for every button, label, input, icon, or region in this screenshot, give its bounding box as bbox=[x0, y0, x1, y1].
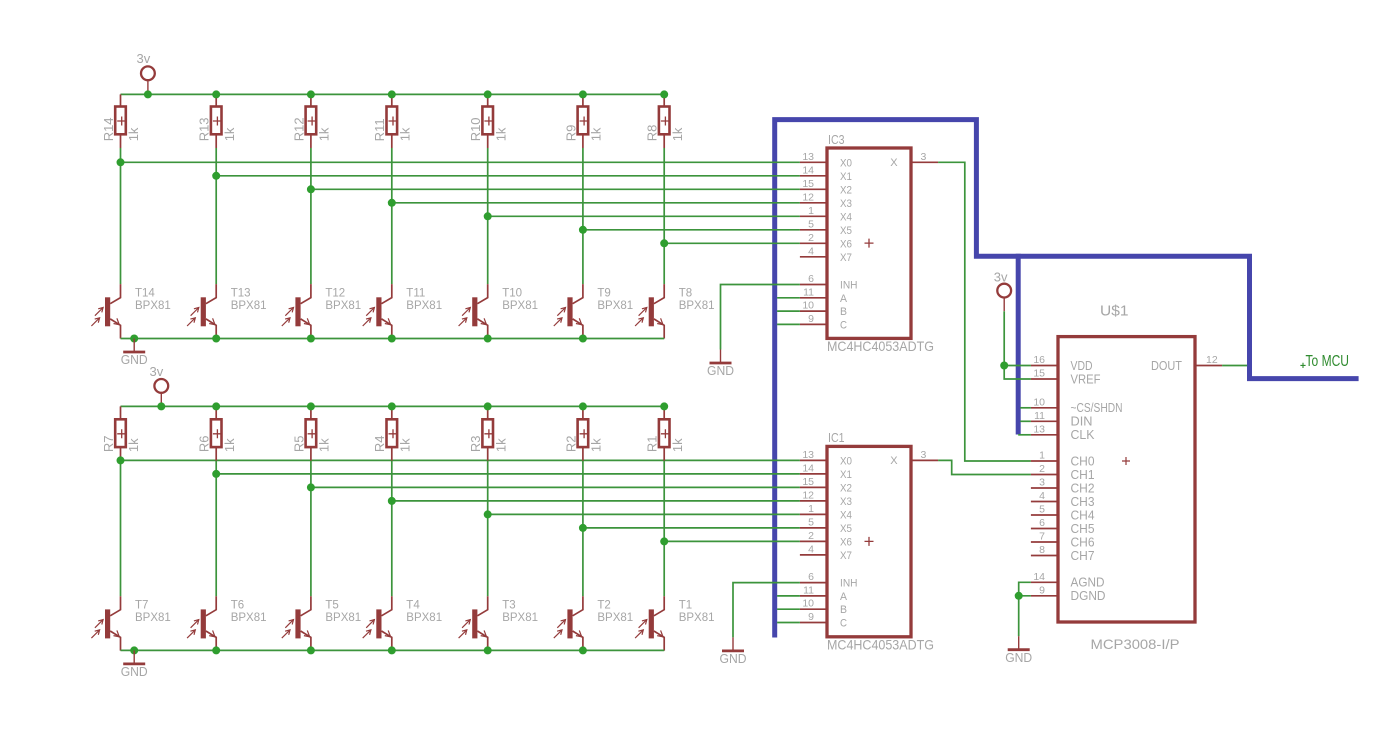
transistor T1 BPX81 bbox=[635, 596, 714, 650]
svg-text:IC1: IC1 bbox=[828, 430, 845, 445]
svg-text:11: 11 bbox=[803, 286, 814, 298]
svg-text:15: 15 bbox=[1033, 368, 1045, 380]
junction rail R1 bbox=[660, 402, 668, 410]
transistor T9 BPX81 bbox=[554, 284, 633, 338]
wire node to mux X5 bbox=[583, 527, 800, 529]
pin 3 X output of IC3 bbox=[911, 161, 938, 163]
pin 3 CH2 of U$1 bbox=[1031, 487, 1058, 489]
wire CLK to bus bbox=[1018, 434, 1031, 436]
wire node to mux X1 bbox=[216, 473, 800, 475]
svg-text:INH: INH bbox=[840, 280, 858, 292]
svg-text:R11: R11 bbox=[372, 118, 387, 141]
junction emitter rail bbox=[212, 646, 220, 654]
svg-text:T4: T4 bbox=[406, 600, 420, 612]
svg-text:1k: 1k bbox=[493, 438, 508, 452]
ground GND (emitter rail) bbox=[121, 339, 148, 368]
junction rail R6 bbox=[212, 402, 220, 410]
junction node X1 bbox=[212, 172, 220, 180]
svg-text:DOUT: DOUT bbox=[1151, 359, 1182, 373]
3v supply symbol (rail y=406.4) bbox=[150, 364, 169, 406]
svg-text:6: 6 bbox=[808, 571, 814, 583]
svg-text:DGND: DGND bbox=[1071, 589, 1106, 603]
resistor R12 1k bbox=[310, 94, 312, 106]
svg-text:3: 3 bbox=[1039, 477, 1045, 489]
wire node to mux X5 bbox=[583, 229, 800, 231]
wire R8 node vertical bbox=[663, 148, 665, 284]
resistor R8 1k bbox=[663, 94, 665, 106]
wire R3 node vertical bbox=[487, 461, 489, 597]
svg-text:C: C bbox=[840, 319, 847, 331]
junction emitter rail bbox=[484, 646, 492, 654]
svg-text:X4: X4 bbox=[840, 509, 852, 521]
pin 10 B of IC1 bbox=[800, 608, 827, 610]
wire node to mux X0 bbox=[121, 459, 800, 461]
svg-text:4: 4 bbox=[1039, 490, 1045, 502]
pin 5 X5 of IC3 bbox=[800, 229, 827, 231]
pin 15 X2 of IC1 bbox=[800, 486, 827, 488]
svg-text:3v: 3v bbox=[994, 270, 1008, 285]
svg-text:X1: X1 bbox=[840, 469, 852, 481]
svg-text:X6: X6 bbox=[840, 238, 852, 250]
junction rail R8 bbox=[660, 90, 668, 98]
svg-text:DIN: DIN bbox=[1071, 415, 1093, 429]
wire DIN to bus bbox=[1020, 420, 1031, 422]
ground GND (IC1 INH) bbox=[720, 637, 747, 666]
svg-text:R10: R10 bbox=[468, 117, 483, 141]
pin 15 X2 of IC3 bbox=[800, 188, 827, 190]
junction emitter rail bbox=[388, 646, 396, 654]
resistor R3 1k bbox=[487, 406, 489, 419]
wire DOUT to bus bbox=[1222, 365, 1247, 367]
IC IC1 MC4HC4053ADTG analog mux box bbox=[827, 446, 911, 636]
wire R2 node vertical bbox=[582, 461, 584, 597]
pin 13 X0 of IC3 bbox=[800, 161, 827, 163]
ground GND (IC3 INH) bbox=[707, 350, 734, 379]
junction emitter rail bbox=[307, 646, 315, 654]
svg-text:BPX81: BPX81 bbox=[325, 300, 361, 312]
ground GND (U$1) bbox=[1005, 636, 1032, 665]
junction emitter rail bbox=[307, 335, 315, 343]
svg-text:T8: T8 bbox=[679, 287, 692, 299]
pin 2 X6 of IC3 bbox=[800, 242, 827, 244]
svg-text:10: 10 bbox=[1033, 396, 1045, 408]
transistor T2 BPX81 bbox=[554, 596, 633, 650]
svg-text:R8: R8 bbox=[645, 125, 660, 142]
pin 4 CH3 of U$1 bbox=[1031, 501, 1058, 503]
svg-text:3: 3 bbox=[921, 449, 927, 461]
wire node to mux X3 bbox=[392, 500, 800, 502]
svg-text:AGND: AGND bbox=[1071, 576, 1105, 590]
wire node to mux X2 bbox=[311, 486, 800, 488]
junction rail R11 bbox=[388, 90, 396, 98]
svg-text:1k: 1k bbox=[222, 127, 237, 141]
svg-text:X1: X1 bbox=[840, 171, 852, 183]
junction GND tap bbox=[130, 646, 138, 654]
svg-text:INH: INH bbox=[840, 578, 858, 590]
svg-text:BPX81: BPX81 bbox=[406, 300, 442, 312]
wire node to mux X1 bbox=[216, 175, 800, 177]
svg-text:R3: R3 bbox=[468, 435, 483, 452]
wire R11 node vertical bbox=[391, 148, 393, 284]
wire node to mux X0 bbox=[121, 161, 800, 163]
svg-text:GND: GND bbox=[121, 665, 148, 679]
svg-text:6: 6 bbox=[1039, 517, 1045, 529]
svg-text:GND: GND bbox=[1005, 651, 1032, 665]
junction emitter rail bbox=[388, 335, 396, 343]
svg-text:1k: 1k bbox=[126, 127, 141, 141]
svg-text:1: 1 bbox=[1039, 450, 1045, 462]
svg-text:6: 6 bbox=[808, 273, 814, 285]
bus branch to U$1 control pins bbox=[1016, 254, 1021, 435]
svg-text:B: B bbox=[840, 306, 847, 318]
svg-text:CH3: CH3 bbox=[1071, 495, 1095, 509]
svg-text:X5: X5 bbox=[840, 523, 852, 535]
svg-text:8: 8 bbox=[1039, 544, 1045, 556]
svg-text:1: 1 bbox=[808, 503, 814, 515]
junction node X5 bbox=[579, 524, 587, 532]
svg-text:1k: 1k bbox=[317, 438, 332, 452]
svg-text:CH4: CH4 bbox=[1071, 508, 1095, 522]
wire R13 node vertical bbox=[215, 148, 217, 284]
resistor R4 1k bbox=[391, 406, 393, 419]
wire R4 node vertical bbox=[391, 461, 393, 597]
pin 2 X6 of IC1 bbox=[800, 540, 827, 542]
svg-text:R5: R5 bbox=[291, 435, 306, 452]
pin 6 INH of IC1 bbox=[800, 582, 827, 584]
junction emitter rail bbox=[579, 646, 587, 654]
pin 15 VREF of U$1 bbox=[1031, 378, 1058, 380]
svg-text:MCP3008-I/P: MCP3008-I/P bbox=[1091, 636, 1180, 652]
svg-text:X0: X0 bbox=[840, 455, 852, 467]
pin 10 B of IC3 bbox=[800, 310, 827, 312]
svg-text:GND: GND bbox=[707, 364, 734, 378]
transistor T13 BPX81 bbox=[187, 284, 266, 338]
wire R7 node vertical bbox=[120, 461, 122, 597]
svg-text:16: 16 bbox=[1033, 354, 1045, 366]
transistor T4 BPX81 bbox=[363, 596, 442, 650]
svg-text:X4: X4 bbox=[840, 211, 852, 223]
junction emitter rail bbox=[484, 335, 492, 343]
svg-text:CH6: CH6 bbox=[1071, 535, 1095, 549]
svg-text:1k: 1k bbox=[397, 438, 412, 452]
wire X output of IC1 bbox=[938, 460, 1031, 474]
wire R6 node vertical bbox=[215, 461, 217, 597]
junction emitter rail bbox=[212, 335, 220, 343]
svg-text:13: 13 bbox=[802, 449, 814, 461]
svg-text:X3: X3 bbox=[840, 198, 852, 210]
pin 13 X0 of IC1 bbox=[800, 459, 827, 461]
junction rail R12 bbox=[307, 90, 315, 98]
svg-text:R13: R13 bbox=[197, 117, 212, 141]
svg-text:BPX81: BPX81 bbox=[325, 612, 361, 624]
junction node X4 bbox=[484, 212, 492, 220]
svg-text:BPX81: BPX81 bbox=[231, 612, 267, 624]
wire 3v to VDD/VREF bbox=[1004, 311, 1031, 379]
svg-text:T9: T9 bbox=[597, 287, 610, 299]
resistor R1 1k bbox=[663, 406, 665, 419]
svg-text:BPX81: BPX81 bbox=[502, 300, 538, 312]
svg-text:R9: R9 bbox=[563, 125, 578, 142]
junction rail R3 bbox=[484, 402, 492, 410]
svg-text:R12: R12 bbox=[291, 117, 306, 141]
wire node to mux X4 bbox=[488, 513, 800, 515]
svg-text:T11: T11 bbox=[406, 287, 425, 299]
wire R12 node vertical bbox=[310, 148, 312, 284]
pin 9 C of IC1 bbox=[800, 622, 827, 624]
pin 9 C of IC3 bbox=[800, 323, 827, 325]
svg-text:MC4HC4053ADTG: MC4HC4053ADTG bbox=[827, 338, 934, 354]
wire INH of IC3 to ground bbox=[721, 285, 800, 350]
pin 12 X3 of IC1 bbox=[800, 500, 827, 502]
transistor T8 BPX81 bbox=[635, 284, 714, 338]
junction 3v on rail bbox=[157, 402, 165, 410]
svg-text:A: A bbox=[840, 591, 848, 603]
svg-text:9: 9 bbox=[808, 313, 814, 325]
pin 14 AGND of U$1 bbox=[1031, 581, 1058, 583]
svg-text:14: 14 bbox=[802, 164, 814, 176]
svg-text:1: 1 bbox=[808, 205, 814, 217]
svg-text:BPX81: BPX81 bbox=[135, 612, 171, 624]
pin 1 X4 of IC3 bbox=[800, 215, 827, 217]
svg-text:1k: 1k bbox=[670, 127, 685, 141]
svg-text:R1: R1 bbox=[645, 435, 660, 452]
3v supply symbol (U$1) bbox=[994, 270, 1011, 312]
junction node X4 bbox=[484, 510, 492, 518]
svg-text:B: B bbox=[840, 604, 847, 616]
pin 12 X3 of IC3 bbox=[800, 202, 827, 204]
svg-text:T5: T5 bbox=[325, 600, 338, 612]
svg-text:X6: X6 bbox=[840, 536, 852, 548]
junction rail R4 bbox=[388, 402, 396, 410]
svg-text:R7: R7 bbox=[101, 435, 116, 452]
resistor R7 1k bbox=[120, 406, 122, 419]
pin 6 INH of IC3 bbox=[800, 284, 827, 286]
junction node X2 bbox=[307, 483, 315, 491]
resistor R14 1k bbox=[120, 94, 122, 106]
junction rail R9 bbox=[579, 90, 587, 98]
svg-text:T3: T3 bbox=[502, 600, 515, 612]
svg-text:15: 15 bbox=[802, 178, 814, 190]
svg-text:1k: 1k bbox=[589, 438, 604, 452]
junction 3v VDD node bbox=[1000, 362, 1008, 370]
wire node to mux X2 bbox=[311, 188, 800, 190]
svg-text:1k: 1k bbox=[397, 127, 412, 141]
wire B to bus bbox=[777, 310, 800, 312]
pin 3 X output of IC1 bbox=[911, 459, 938, 461]
svg-text:CLK: CLK bbox=[1071, 428, 1096, 442]
svg-text:3v: 3v bbox=[150, 364, 164, 379]
svg-text:BPX81: BPX81 bbox=[597, 612, 633, 624]
pin 1 X4 of IC1 bbox=[800, 513, 827, 515]
transistor T10 BPX81 bbox=[459, 284, 538, 338]
junction node X2 bbox=[307, 185, 315, 193]
svg-text:3v: 3v bbox=[137, 51, 151, 66]
junction node X5 bbox=[579, 226, 587, 234]
svg-text:1k: 1k bbox=[493, 127, 508, 141]
pin 11 DIN of U$1 bbox=[1031, 420, 1058, 422]
svg-text:CH0: CH0 bbox=[1071, 454, 1095, 468]
svg-text:BPX81: BPX81 bbox=[135, 300, 171, 312]
svg-text:1k: 1k bbox=[126, 438, 141, 452]
transistor T14 BPX81 bbox=[91, 284, 170, 338]
svg-text:3: 3 bbox=[921, 151, 927, 163]
svg-text:T7: T7 bbox=[135, 600, 148, 612]
svg-text:11: 11 bbox=[803, 584, 814, 596]
wire 3v rail bbox=[121, 405, 665, 407]
svg-text:R14: R14 bbox=[101, 117, 116, 141]
svg-text:T14: T14 bbox=[135, 287, 155, 299]
svg-text:GND: GND bbox=[121, 353, 148, 367]
svg-text:12: 12 bbox=[1206, 354, 1218, 366]
svg-text:VDD: VDD bbox=[1071, 359, 1093, 373]
svg-text:4: 4 bbox=[808, 543, 814, 555]
wire node to mux X4 bbox=[488, 215, 800, 217]
transistor T11 BPX81 bbox=[363, 284, 442, 338]
svg-text:13: 13 bbox=[802, 151, 814, 163]
svg-text:9: 9 bbox=[1039, 584, 1045, 596]
resistor R11 1k bbox=[391, 94, 393, 106]
pin 6 CH5 of U$1 bbox=[1031, 528, 1058, 530]
pin 5 CH4 of U$1 bbox=[1031, 514, 1058, 516]
wire AGND/DGND to ground bbox=[1019, 582, 1031, 636]
svg-text:5: 5 bbox=[808, 218, 814, 230]
svg-text:CH2: CH2 bbox=[1071, 481, 1095, 495]
junction 3v on rail bbox=[144, 90, 152, 98]
IC U$1 MCP3008-I/P ADC box bbox=[1058, 337, 1195, 622]
svg-text:7: 7 bbox=[1039, 531, 1045, 543]
resistor R13 1k bbox=[215, 94, 217, 106]
junction emitter rail bbox=[579, 335, 587, 343]
transistor T7 BPX81 bbox=[91, 596, 170, 650]
junction node X0 bbox=[117, 158, 125, 166]
pin 16 VDD of U$1 bbox=[1031, 365, 1058, 367]
junction node X6 bbox=[660, 537, 668, 545]
svg-text:12: 12 bbox=[802, 489, 814, 501]
pin 11 A of IC1 bbox=[800, 595, 827, 597]
resistor R5 1k bbox=[310, 406, 312, 419]
svg-text:2: 2 bbox=[1039, 463, 1045, 475]
pin 5 X5 of IC1 bbox=[800, 527, 827, 529]
svg-text:14: 14 bbox=[1033, 571, 1045, 583]
svg-text:R6: R6 bbox=[197, 435, 212, 452]
svg-text:To MCU: To MCU bbox=[1306, 353, 1350, 370]
transistor T6 BPX81 bbox=[187, 596, 266, 650]
svg-text:BPX81: BPX81 bbox=[406, 612, 442, 624]
svg-text:14: 14 bbox=[802, 462, 814, 474]
pin 12 DOUT of U$1 bbox=[1195, 365, 1222, 367]
wire R14 node vertical bbox=[120, 148, 122, 284]
junction node X3 bbox=[388, 497, 396, 505]
wire A to bus bbox=[777, 595, 800, 597]
svg-text:9: 9 bbox=[808, 611, 814, 623]
svg-text:5: 5 bbox=[808, 516, 814, 528]
svg-text:~CS/SHDN: ~CS/SHDN bbox=[1071, 401, 1123, 415]
junction node X3 bbox=[388, 199, 396, 207]
svg-text:11: 11 bbox=[1034, 410, 1045, 422]
wire ~CS/SHDN to bus bbox=[1020, 407, 1031, 409]
svg-text:X0: X0 bbox=[840, 157, 852, 169]
wire emitter ground rail bbox=[121, 649, 665, 651]
transistor T12 BPX81 bbox=[282, 284, 361, 338]
wire R9 node vertical bbox=[582, 148, 584, 284]
pin 1 CH0 of U$1 bbox=[1031, 460, 1058, 462]
svg-text:X7: X7 bbox=[840, 252, 852, 264]
svg-text:BPX81: BPX81 bbox=[502, 612, 538, 624]
transistor T3 BPX81 bbox=[459, 596, 538, 650]
wire R10 node vertical bbox=[487, 148, 489, 284]
svg-text:U$1: U$1 bbox=[1100, 304, 1129, 320]
wire C to bus bbox=[777, 622, 800, 624]
ground GND (emitter rail) bbox=[121, 650, 148, 679]
pin 14 X1 of IC3 bbox=[800, 175, 827, 177]
svg-text:CH7: CH7 bbox=[1071, 549, 1095, 563]
pin 13 CLK of U$1 bbox=[1031, 434, 1058, 436]
pin 4 X7 of IC3 bbox=[800, 256, 827, 258]
wire C to bus bbox=[777, 323, 800, 325]
resistor R2 1k bbox=[582, 406, 584, 419]
svg-text:X: X bbox=[890, 455, 898, 467]
svg-text:X2: X2 bbox=[840, 184, 852, 196]
pin 11 A of IC3 bbox=[800, 297, 827, 299]
svg-text:IC3: IC3 bbox=[828, 132, 845, 147]
svg-text:BPX81: BPX81 bbox=[679, 300, 715, 312]
resistor R10 1k bbox=[487, 94, 489, 106]
svg-text:T2: T2 bbox=[597, 600, 610, 612]
wire R1 node vertical bbox=[663, 461, 665, 597]
pin 8 CH7 of U$1 bbox=[1031, 555, 1058, 557]
wire INH of IC1 to ground bbox=[733, 583, 800, 638]
svg-text:4: 4 bbox=[808, 245, 814, 257]
wire R5 node vertical bbox=[310, 461, 312, 597]
svg-text:MC4HC4053ADTG: MC4HC4053ADTG bbox=[827, 636, 934, 652]
junction node X6 bbox=[660, 239, 668, 247]
wire node to mux X6 bbox=[664, 540, 800, 542]
svg-text:1k: 1k bbox=[222, 438, 237, 452]
3v supply symbol (rail y=94.4) bbox=[137, 51, 155, 95]
junction AGND/DGND bbox=[1015, 592, 1023, 600]
pin 4 X7 of IC1 bbox=[800, 554, 827, 556]
wire X output of IC3 bbox=[938, 162, 1031, 461]
svg-text:5: 5 bbox=[1039, 504, 1045, 516]
svg-text:CH5: CH5 bbox=[1071, 522, 1095, 536]
node To MCU label bbox=[1300, 353, 1349, 370]
resistor R6 1k bbox=[215, 406, 217, 419]
wire node to mux X6 bbox=[664, 242, 800, 244]
bus to MCU bbox=[775, 120, 1359, 638]
junction rail R13 bbox=[212, 90, 220, 98]
pin 9 DGND of U$1 bbox=[1031, 595, 1058, 597]
svg-text:2: 2 bbox=[808, 530, 814, 542]
svg-text:T13: T13 bbox=[231, 287, 251, 299]
svg-text:C: C bbox=[840, 618, 847, 630]
resistor R9 1k bbox=[582, 94, 584, 106]
wire node to mux X3 bbox=[392, 202, 800, 204]
svg-text:A: A bbox=[840, 293, 848, 305]
junction rail R10 bbox=[484, 90, 492, 98]
IC IC3 MC4HC4053ADTG analog mux box bbox=[827, 148, 911, 338]
svg-text:T10: T10 bbox=[502, 287, 522, 299]
svg-text:2: 2 bbox=[808, 232, 814, 244]
wire A to bus bbox=[777, 297, 800, 299]
pin 10 ~CS/SHDN of U$1 bbox=[1031, 407, 1058, 409]
svg-text:10: 10 bbox=[802, 300, 814, 312]
wire 3v rail bbox=[121, 93, 665, 95]
svg-text:X: X bbox=[890, 157, 898, 169]
junction node X1 bbox=[212, 470, 220, 478]
transistor T5 BPX81 bbox=[282, 596, 361, 650]
svg-text:X3: X3 bbox=[840, 496, 852, 508]
pin 14 X1 of IC1 bbox=[800, 473, 827, 475]
